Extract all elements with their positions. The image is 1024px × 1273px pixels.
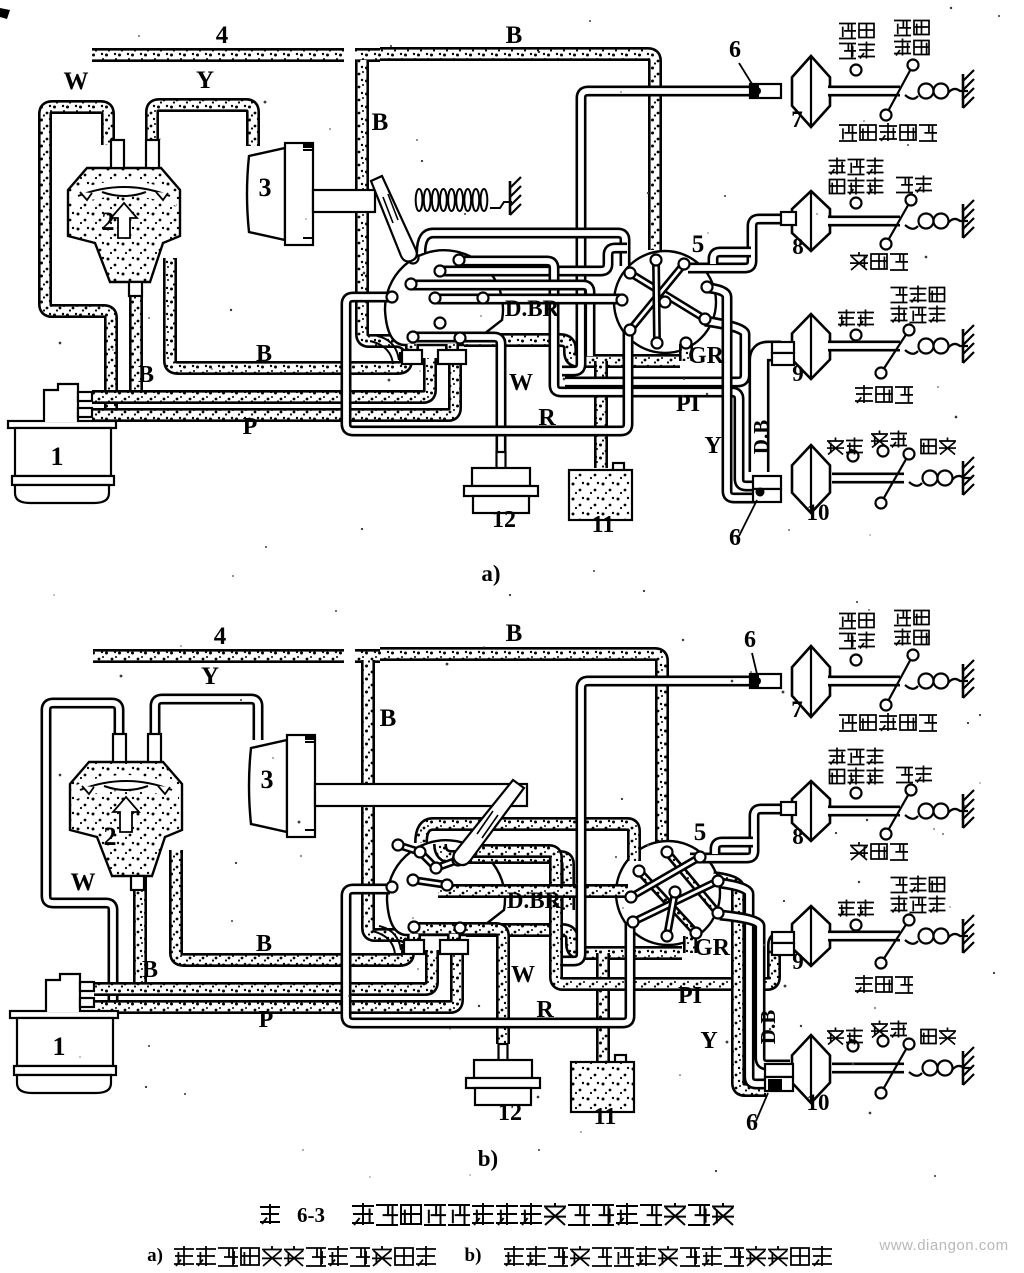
vacuum motor 10 bbox=[792, 445, 830, 513]
motor 10 wall anchor bbox=[962, 461, 965, 495]
vacuum tank 1 bbox=[8, 421, 116, 428]
port stub 2 bbox=[445, 344, 459, 364]
programmer ports (b) bbox=[453, 855, 464, 866]
output rod bbox=[828, 216, 900, 227]
svg-text:7: 7 bbox=[791, 107, 803, 132]
svg-text:D.B: D.B bbox=[756, 1010, 780, 1044]
port stub 2 (b) bbox=[447, 934, 461, 954]
pipe D.BR tube bbox=[436, 294, 620, 305]
position dot bbox=[851, 788, 862, 799]
svg-text:6-3: 6-3 bbox=[297, 1203, 325, 1227]
svg-text:GR: GR bbox=[688, 343, 725, 369]
pipe B from tank bbox=[92, 358, 430, 397]
servo lower stub left (b) bbox=[133, 860, 147, 990]
svg-text:Y: Y bbox=[201, 663, 219, 690]
right drop 2 (b) bbox=[720, 915, 790, 1065]
vacuum motor 8 bbox=[792, 191, 830, 251]
spring coil bbox=[416, 189, 423, 211]
programmer valve body (b) bbox=[387, 840, 505, 935]
connector 6 bottom (b) bbox=[765, 1064, 793, 1077]
valve 5 ports (b) bbox=[662, 847, 673, 858]
svg-text:W: W bbox=[511, 962, 535, 988]
line to motor 8 bbox=[688, 219, 781, 268]
svg-text:B: B bbox=[256, 931, 272, 957]
motor 9b wall anchor bbox=[962, 919, 965, 953]
tank fitting bbox=[46, 974, 80, 1012]
svg-text:W: W bbox=[64, 68, 89, 95]
svg-text:www.diangon.com: www.diangon.com bbox=[878, 1237, 1008, 1254]
motor 9 connector (b) bbox=[772, 932, 794, 943]
pipe W to motor 12 (b) bbox=[416, 929, 503, 1044]
svg-text:7: 7 bbox=[791, 697, 803, 722]
pipe B vertical drop (b) bbox=[368, 660, 413, 950]
svg-text:B: B bbox=[506, 22, 523, 49]
motor 9 spring bbox=[905, 350, 918, 354]
programmer nest line 2 (b) bbox=[440, 844, 568, 910]
svg-text:6: 6 bbox=[729, 525, 741, 551]
pipe PI (b) bbox=[461, 851, 786, 984]
vacuum motor 7 (b) bbox=[792, 646, 830, 717]
svg-text:PI: PI bbox=[676, 391, 700, 417]
lever bbox=[886, 200, 911, 244]
restrictor 11 (b) bbox=[615, 1055, 626, 1063]
motor 8b spring bbox=[905, 815, 918, 819]
motor 10b wall anchor bbox=[962, 1051, 965, 1085]
svg-text:B: B bbox=[256, 341, 272, 367]
motor 10 spring bbox=[909, 482, 922, 486]
pipe R loop bbox=[346, 297, 628, 431]
svg-text:3: 3 bbox=[261, 765, 274, 794]
svg-text:B: B bbox=[372, 109, 389, 136]
position dot bbox=[851, 920, 862, 931]
svg-text:Y: Y bbox=[196, 67, 214, 94]
svg-text:6: 6 bbox=[729, 37, 741, 63]
vacuum motor 8 (b) bbox=[792, 781, 830, 841]
pipe W source loop bbox=[45, 107, 111, 414]
svg-text:5: 5 bbox=[692, 231, 705, 258]
servo unit 2 bbox=[68, 168, 180, 282]
position dot bbox=[851, 655, 862, 666]
svg-text:a): a) bbox=[481, 561, 500, 586]
programmer bottom port flanges bbox=[402, 350, 422, 364]
output rod bbox=[832, 1063, 904, 1074]
servo unit 2 (b) bbox=[70, 762, 182, 876]
pipe GR run bbox=[464, 340, 680, 361]
actuating rod bbox=[313, 190, 375, 212]
GR hook to valve bbox=[679, 344, 693, 361]
scan corner mark bbox=[0, 8, 10, 19]
svg-text:B: B bbox=[380, 705, 397, 732]
tank fitting bbox=[44, 384, 78, 422]
line to motor 7 bbox=[562, 91, 781, 371]
svg-text:1: 1 bbox=[51, 442, 64, 471]
svg-text:D.B: D.B bbox=[749, 420, 773, 454]
motor 9 connector bbox=[772, 342, 794, 353]
pipe P from tank bbox=[92, 360, 455, 415]
svg-text:2: 2 bbox=[102, 207, 115, 236]
svg-text:PI: PI bbox=[678, 983, 702, 1009]
svg-text:10: 10 bbox=[807, 1090, 830, 1115]
vacuum motor 12 (b) bbox=[499, 1044, 508, 1061]
position dot bbox=[851, 65, 862, 76]
line to motor 8 (b) bbox=[690, 809, 781, 858]
motor 8 wall anchor bbox=[962, 204, 965, 238]
pipe Y servo to thermostat bbox=[152, 105, 253, 147]
thermostat 3 (b) bbox=[249, 740, 287, 832]
svg-text:b): b) bbox=[478, 1146, 498, 1171]
restrictor 11 bbox=[613, 463, 624, 471]
pipe R loop (b) bbox=[346, 889, 630, 1023]
svg-text:11: 11 bbox=[594, 1104, 617, 1130]
position dot bbox=[851, 330, 862, 341]
pipe Y right (b) bbox=[713, 878, 766, 1090]
pipe P from tank (b) bbox=[94, 952, 457, 1007]
output rod bbox=[832, 473, 904, 484]
motor 10b spring bbox=[909, 1072, 922, 1076]
pipe Y right bbox=[709, 288, 755, 498]
svg-text:D.BR: D.BR bbox=[505, 296, 560, 321]
pipe 4 manifold (b) bbox=[93, 649, 344, 663]
svg-text:11: 11 bbox=[592, 512, 615, 538]
output rod bbox=[828, 931, 900, 942]
output rod bbox=[828, 806, 900, 817]
programmer top nest line (b) bbox=[421, 824, 634, 861]
svg-text:10: 10 bbox=[807, 500, 830, 525]
connector 6 top (b) bbox=[750, 674, 781, 688]
output rod bbox=[828, 676, 900, 687]
svg-text:1: 1 bbox=[53, 1032, 66, 1061]
vacuum motor 9 bbox=[792, 314, 830, 379]
svg-text:P: P bbox=[259, 1007, 274, 1033]
programmer linkage (b) bbox=[398, 845, 458, 868]
svg-text:8: 8 bbox=[792, 824, 804, 849]
tee junction stub bbox=[355, 48, 380, 62]
valve 5 ports bbox=[651, 255, 662, 266]
motor 7 spring bbox=[905, 95, 918, 99]
lever bbox=[886, 655, 913, 705]
GR hook to valve (b) bbox=[683, 936, 697, 953]
valve 5 rotor spokes (b) bbox=[667, 852, 718, 913]
svg-text:6: 6 bbox=[746, 1110, 758, 1136]
svg-text:W: W bbox=[71, 869, 96, 896]
programmer port tube 2 bbox=[412, 285, 590, 356]
servo lower stub left bbox=[129, 278, 143, 398]
svg-text:2: 2 bbox=[104, 822, 117, 851]
pipe 4 manifold bbox=[92, 48, 344, 62]
svg-text:GR: GR bbox=[694, 935, 731, 961]
pipe GR run (b) bbox=[466, 930, 682, 953]
long actuating rod (b) bbox=[315, 784, 527, 806]
position dot bbox=[848, 451, 859, 462]
programmer valve body bbox=[385, 250, 503, 345]
pipe W to motor 12 bbox=[414, 337, 501, 452]
output rod bbox=[828, 341, 900, 352]
scan noise specks bbox=[589, 20, 591, 22]
valve to 8 nest stub bbox=[713, 252, 751, 264]
vacuum motor 10 (b) bbox=[792, 1035, 830, 1103]
programmer bottom port flanges (b) bbox=[404, 940, 424, 954]
pipe Y (b) bbox=[155, 699, 258, 757]
svg-text:3: 3 bbox=[259, 173, 272, 202]
svg-text:B: B bbox=[138, 362, 154, 388]
position dot bbox=[851, 198, 862, 209]
output rod bbox=[828, 86, 900, 97]
svg-text:12: 12 bbox=[492, 507, 516, 533]
lever bbox=[881, 330, 909, 373]
position dot bbox=[848, 1041, 859, 1052]
motor 7b spring bbox=[905, 685, 918, 689]
connector 6 top bbox=[750, 84, 781, 98]
rotary valve 5 body bbox=[614, 251, 716, 353]
svg-text:R: R bbox=[536, 997, 554, 1023]
right drop 1 (b) bbox=[720, 883, 766, 1084]
svg-text:b): b) bbox=[465, 1245, 482, 1266]
tee junction stub (b) bbox=[355, 649, 380, 663]
motor 8 spring bbox=[905, 225, 918, 229]
vacuum motor 9 (b) bbox=[792, 906, 830, 966]
pipe W loop (b) bbox=[46, 703, 119, 1000]
pipe to restrictor 11 (b) bbox=[596, 953, 610, 1062]
pipe B top run to valve 5 bbox=[380, 54, 655, 250]
lever bbox=[881, 1044, 909, 1093]
svg-text:D.BR: D.BR bbox=[507, 888, 562, 913]
svg-text:B: B bbox=[506, 620, 523, 647]
lever bbox=[881, 920, 909, 963]
svg-text:Y: Y bbox=[704, 433, 721, 459]
wide pipe DB link 9-10 bbox=[759, 351, 781, 472]
vacuum motor 12 bbox=[497, 452, 506, 469]
svg-text:R: R bbox=[538, 405, 556, 431]
lever bbox=[886, 65, 913, 115]
svg-text:a): a) bbox=[147, 1245, 163, 1266]
lever with slot (b) bbox=[453, 780, 524, 865]
lever bbox=[886, 790, 911, 834]
programmer top nest line bbox=[421, 233, 625, 266]
vacuum tank 1 (b) bbox=[10, 1011, 118, 1018]
motor 9 wall anchor bbox=[962, 329, 965, 363]
connector 6 bottom bbox=[753, 476, 781, 489]
svg-text:8: 8 bbox=[792, 234, 804, 259]
lever with slot bbox=[371, 176, 417, 261]
port stub 1 bbox=[405, 344, 419, 364]
svg-text:B: B bbox=[142, 957, 158, 983]
svg-text:12: 12 bbox=[498, 1100, 522, 1126]
vacuum motor 7 bbox=[792, 56, 830, 127]
svg-text:5: 5 bbox=[694, 819, 707, 846]
port stub 1 (b) bbox=[407, 934, 421, 954]
motor 7 wall anchor bbox=[962, 74, 965, 108]
svg-text:W: W bbox=[509, 370, 533, 396]
pipe to restrictor 11 bbox=[594, 361, 608, 468]
nested pipe B inner bbox=[170, 258, 406, 368]
line to motor 7 (b) bbox=[563, 681, 781, 961]
svg-text:P: P bbox=[243, 414, 258, 440]
spring wall anchor bbox=[509, 181, 512, 215]
valve to 8 nest stub (b) bbox=[715, 842, 753, 854]
pipe B from tank (b) bbox=[94, 950, 432, 989]
pipe B vertical drop bbox=[362, 60, 411, 356]
programmer ports bbox=[408, 253, 419, 264]
valve 5 rotor spokes bbox=[630, 273, 705, 319]
motor 7b wall anchor bbox=[962, 664, 965, 698]
pipe PI lower bbox=[459, 261, 755, 486]
nested pipe B inner (b) bbox=[176, 850, 408, 960]
svg-text:Y: Y bbox=[700, 1028, 717, 1054]
pipe B top run to valve 5 (b) bbox=[380, 654, 662, 845]
svg-text:4: 4 bbox=[214, 623, 227, 650]
rotary valve 5 body (b) bbox=[616, 841, 720, 945]
svg-text:6: 6 bbox=[744, 627, 756, 653]
pipe PI upper bbox=[565, 321, 745, 382]
programmer nest line 2 bbox=[440, 248, 627, 271]
motor 9b spring bbox=[905, 940, 918, 944]
lever bbox=[881, 454, 909, 503]
pipe D.BR tube (b) bbox=[438, 884, 628, 898]
motor 8b wall anchor bbox=[962, 794, 965, 828]
svg-text:4: 4 bbox=[216, 22, 229, 49]
figure caption line 1 bbox=[260, 1204, 280, 1224]
thermostat 3 bbox=[247, 148, 285, 240]
